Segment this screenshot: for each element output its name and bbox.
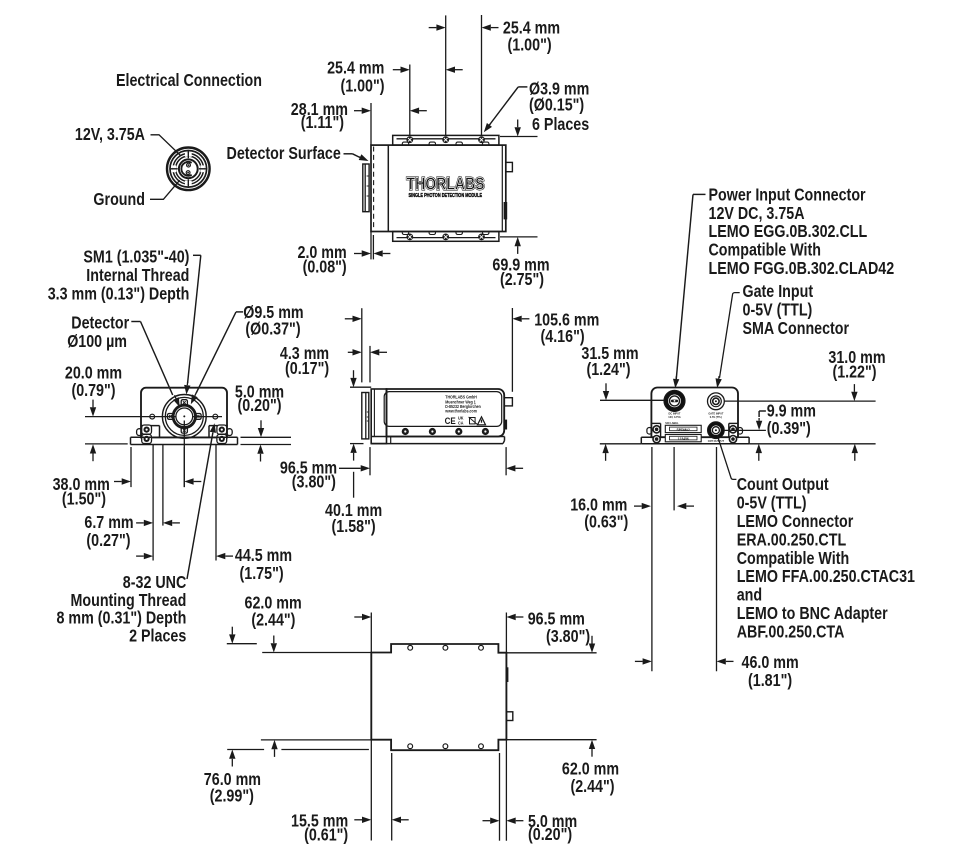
- svg-text:Count Output: Count Output: [737, 475, 829, 494]
- svg-text:(3.80"): (3.80"): [546, 627, 590, 646]
- top view right small port: [504, 202, 508, 219]
- svg-text:(0.79"): (0.79"): [71, 381, 115, 400]
- bottom view holes top: [408, 645, 413, 650]
- svg-text:Detector Surface: Detector Surface: [227, 144, 341, 163]
- dimension 46.0 mm: [635, 660, 643, 662]
- svg-text:Gate Input: Gate Input: [743, 282, 814, 301]
- leader 9.5mm: [236, 311, 243, 313]
- svg-text:Detector: Detector: [71, 314, 129, 333]
- top view right connector nub: [506, 162, 513, 171]
- svg-text:(1.11"): (1.11"): [301, 113, 344, 132]
- svg-text:Internal Thread: Internal Thread: [86, 266, 189, 285]
- svg-text:SINGLE PHOTON DETECTION MODULE: SINGLE PHOTON DETECTION MODULE: [409, 193, 483, 199]
- svg-text:Mounting Thread: Mounting Thread: [71, 591, 187, 610]
- count output connector: [709, 424, 722, 437]
- centerline vertical below flange: [183, 421, 185, 488]
- side view detector protrusion: [362, 393, 369, 439]
- svg-text:0-5V (TTL): 0-5V (TTL): [710, 415, 722, 419]
- top view detector surface dashed line: [373, 147, 375, 231]
- gate input SMA connector: [708, 393, 725, 410]
- svg-text:8-32 UNC: 8-32 UNC: [123, 573, 187, 592]
- top view top flange: [393, 135, 499, 145]
- dimension 2.0 mm: [372, 235, 374, 259]
- dimension 25.4 mm right: [429, 27, 437, 29]
- svg-text:(0.61"): (0.61"): [304, 826, 348, 845]
- dimension 44.5 mm: [136, 555, 144, 557]
- svg-text:3.3 mm (0.13") Depth: 3.3 mm (0.13") Depth: [48, 284, 190, 303]
- front view 4 small screws around flange: [181, 400, 187, 406]
- extension lines below back view: [651, 447, 653, 671]
- svg-text:6.7 mm: 6.7 mm: [84, 513, 133, 532]
- svg-text:2 Places: 2 Places: [129, 626, 186, 645]
- svg-text:12V, 3.75A: 12V, 3.75A: [668, 415, 681, 419]
- dimension 40.1 mm: [350, 386, 371, 388]
- svg-text:THORLABS: THORLABS: [407, 173, 485, 193]
- leader SM1: [193, 254, 201, 256]
- centerline horizontal through holes: [85, 416, 176, 418]
- svg-text:(0.63"): (0.63"): [584, 512, 628, 531]
- svg-text:(1.00"): (1.00"): [340, 76, 384, 95]
- svg-text:S/N LABEL: S/N LABEL: [665, 421, 678, 425]
- extension lines side view top: [361, 308, 363, 382]
- leader 8-32 UNC to right hole: [187, 433, 213, 579]
- svg-text:LEMO FFA.00.250.CTAC31: LEMO FFA.00.250.CTAC31: [737, 567, 916, 586]
- svg-text:Compatible With: Compatible With: [709, 241, 822, 260]
- svg-text:(4.16"): (4.16"): [541, 327, 585, 346]
- svg-text:8 mm (0.31") Depth: 8 mm (0.31") Depth: [57, 609, 187, 628]
- svg-text:(0.20"): (0.20"): [528, 825, 572, 844]
- back view base plate: [641, 436, 749, 438]
- svg-text:12V DC, 3.75A: 12V DC, 3.75A: [709, 204, 805, 223]
- leader 3.9mm to screw: [518, 86, 527, 88]
- FRONT VIEW body: [141, 388, 227, 438]
- dimension 105.6 mm: [345, 318, 353, 320]
- top view detector protrusion: [363, 164, 369, 212]
- side view 4 screws: [402, 428, 409, 435]
- dimension 69.9 mm: [500, 136, 538, 138]
- svg-text:SM1 (1.035"-40): SM1 (1.035"-40): [83, 248, 189, 267]
- svg-text:Power Input Connector: Power Input Connector: [709, 185, 866, 204]
- svg-text:(1.75"): (1.75"): [240, 564, 284, 583]
- svg-text:Ground: Ground: [93, 190, 145, 209]
- svg-text:96.5 mm: 96.5 mm: [528, 610, 585, 629]
- svg-text:(1.22"): (1.22"): [832, 362, 876, 381]
- svg-text:SMA Connector: SMA Connector: [743, 319, 850, 338]
- svg-text:44.5 mm: 44.5 mm: [235, 546, 292, 565]
- svg-text:LEMO Connector: LEMO Connector: [737, 512, 854, 531]
- svg-text:(2.99"): (2.99"): [210, 787, 254, 806]
- svg-text:46.0 mm: 46.0 mm: [742, 653, 799, 672]
- svg-text:and: and: [737, 586, 762, 605]
- connector inner bore: [179, 159, 198, 178]
- bottom view holes bottom: [408, 744, 413, 749]
- svg-text:(2.44"): (2.44"): [251, 611, 295, 630]
- svg-text:12V, 3.75A: 12V, 3.75A: [75, 125, 145, 144]
- svg-text:20.0 mm: 20.0 mm: [65, 364, 122, 383]
- front view SM1 flange circles: [162, 395, 206, 439]
- dimension 5.0 mm plate thickness: [241, 436, 292, 438]
- svg-text:0-5V (TTL): 0-5V (TTL): [743, 301, 813, 320]
- back view dimension lines horizontal: [600, 399, 664, 401]
- side view right nub: [504, 398, 512, 406]
- front view base plate: [131, 436, 238, 438]
- leader count output: [717, 435, 736, 479]
- dimension 5.0 mm bottom: [483, 820, 491, 822]
- TOP VIEW outer body: [371, 145, 506, 231]
- svg-text:(0.39"): (0.39"): [767, 419, 811, 438]
- svg-text:CNT OUTPUT: CNT OUTPUT: [708, 439, 724, 443]
- svg-text:CA: CA: [458, 420, 464, 425]
- leader Detector: [131, 321, 140, 323]
- svg-text:www.thorlabs.com: www.thorlabs.com: [444, 409, 477, 414]
- svg-text:(1.24"): (1.24"): [586, 360, 630, 379]
- bottom flange screws: [406, 234, 413, 241]
- svg-text:LEMO FGG.0B.302.CLAD42: LEMO FGG.0B.302.CLAD42: [709, 259, 895, 278]
- connector pin bottom (ground): [186, 171, 190, 175]
- svg-text:(0.27"): (0.27"): [86, 531, 130, 550]
- svg-text:9.9 mm: 9.9 mm: [767, 402, 816, 421]
- svg-text:LEMO to BNC Adapter: LEMO to BNC Adapter: [737, 604, 888, 623]
- top flange screws: [406, 136, 413, 143]
- dimension 62.0 mm right: [591, 636, 593, 644]
- svg-text:LEMO EGG.0B.302.CLL: LEMO EGG.0B.302.CLL: [709, 222, 868, 241]
- svg-text:(3.80"): (3.80"): [292, 472, 336, 491]
- BOTTOM VIEW outline: [371, 644, 506, 750]
- svg-text:ABF.00.250.CTA: ABF.00.250.CTA: [737, 622, 845, 641]
- dimension 76.0 mm: [231, 627, 233, 635]
- top view front plate divider: [387, 145, 389, 231]
- svg-text:(2.44"): (2.44"): [570, 777, 614, 796]
- extension lines above top view: [370, 103, 372, 145]
- dimension 96.5 mm side view: [369, 447, 371, 475]
- svg-text:(2.75"): (2.75"): [500, 270, 544, 289]
- svg-text:(0.20"): (0.20"): [237, 396, 281, 415]
- front view left ear with screws: [159, 426, 161, 438]
- svg-text:(0.08"): (0.08"): [303, 258, 347, 277]
- svg-text:Compatible With: Compatible With: [737, 549, 850, 568]
- svg-text:Ø100 µm: Ø100 µm: [67, 332, 127, 351]
- top flange tabs: [402, 142, 408, 145]
- side view right port: [504, 420, 507, 430]
- SIDE VIEW body: [387, 389, 505, 437]
- side view base plate: [371, 436, 504, 438]
- top view inner lid line right: [501, 145, 503, 231]
- back view left ear: [660, 423, 662, 437]
- svg-text:0-5V (TTL): 0-5V (TTL): [737, 494, 807, 513]
- 8-32 mounting hole right: [213, 414, 218, 419]
- svg-text:ERA.00.250.CTL: ERA.00.250.CTL: [737, 530, 847, 549]
- leader 12V: [151, 135, 181, 156]
- 8-32 mounting hole left: [150, 414, 155, 419]
- top view bottom flange: [393, 232, 499, 242]
- svg-text:123456: 123456: [678, 436, 690, 441]
- extension lines below front view: [130, 447, 132, 487]
- svg-text:6 Places: 6 Places: [532, 115, 589, 134]
- leader power input: [693, 193, 706, 195]
- leader detector surface: [344, 153, 353, 155]
- side view front plate: [371, 389, 386, 444]
- svg-text:25.4 mm: 25.4 mm: [327, 59, 384, 78]
- bottom view right connector tick: [506, 667, 509, 682]
- svg-text:(1.50"): (1.50"): [62, 490, 106, 509]
- bottom view right nub: [506, 712, 512, 721]
- svg-text:(1.00"): (1.00"): [508, 35, 552, 54]
- back view right ear: [728, 423, 730, 437]
- bottom view extension lines: [227, 643, 257, 645]
- front view right ear with screws: [208, 426, 210, 438]
- svg-text:(1.81"): (1.81"): [748, 671, 792, 690]
- power connector face (LEMO) front view: [167, 148, 210, 191]
- leader gate input: [720, 293, 740, 378]
- svg-text:Electrical Connection: Electrical Connection: [116, 71, 262, 90]
- svg-text:(Ø0.37"): (Ø0.37"): [245, 320, 300, 339]
- power input connector LEMO: [666, 392, 683, 409]
- svg-text:(1.58"): (1.58"): [332, 517, 376, 536]
- bottom flange tabs: [402, 232, 408, 235]
- svg-text:62.0 mm: 62.0 mm: [562, 760, 619, 779]
- dimension 96.5 mm bottom view: [354, 616, 362, 618]
- connector pin top (12V): [187, 163, 191, 167]
- svg-text:(0.17"): (0.17"): [285, 359, 329, 378]
- leader Ground: [150, 180, 180, 199]
- svg-text:SPDM#2: SPDM#2: [677, 427, 691, 432]
- svg-text:CE: CE: [445, 416, 456, 427]
- side view inner panel: [384, 392, 502, 427]
- svg-text:(Ø0.15"): (Ø0.15"): [529, 96, 584, 115]
- BACK VIEW body: [651, 388, 738, 438]
